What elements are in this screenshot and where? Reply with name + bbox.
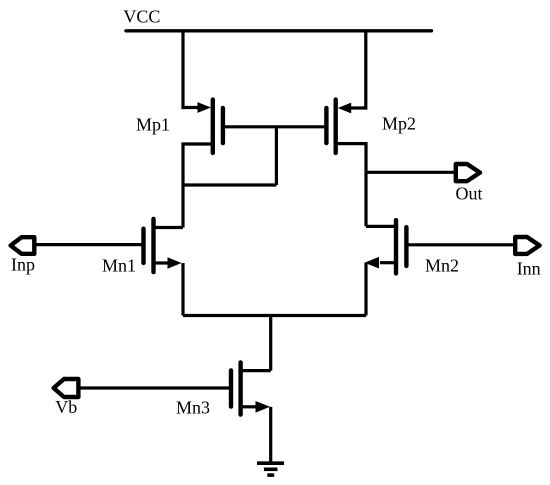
svg-text:Mn2: Mn2 xyxy=(425,256,459,276)
svg-text:Mp1: Mp1 xyxy=(136,115,170,135)
svg-text:Mn3: Mn3 xyxy=(176,398,210,418)
svg-text:VCC: VCC xyxy=(123,7,160,27)
svg-text:Mp2: Mp2 xyxy=(382,114,416,134)
svg-text:Out: Out xyxy=(456,184,483,204)
svg-text:Inp: Inp xyxy=(11,254,35,274)
svg-text:Inn: Inn xyxy=(517,259,541,279)
svg-text:Vb: Vb xyxy=(55,397,77,417)
svg-text:Mn1: Mn1 xyxy=(102,255,136,275)
